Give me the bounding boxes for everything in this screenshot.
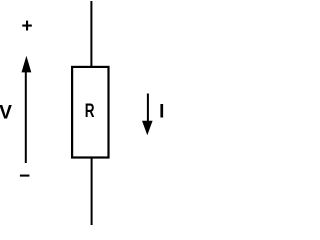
svg-text:V: V (0, 103, 12, 124)
svg-text:+: + (21, 16, 32, 37)
svg-text:I: I (159, 102, 164, 123)
svg-text:R: R (85, 101, 95, 122)
svg-text:−: − (19, 166, 30, 187)
